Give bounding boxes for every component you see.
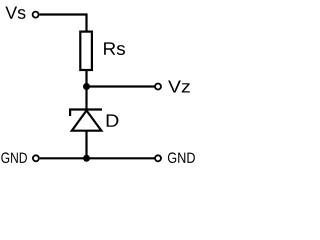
node Vz label — [168, 81, 190, 93]
zener diode D label — [107, 114, 119, 126]
node Vs terminal circle — [33, 12, 39, 18]
wire node to Vz terminal — [87, 85, 155, 87]
node Vs label — [5, 7, 25, 19]
ground terminal circle left — [33, 155, 39, 161]
wire Vs terminal to resistor top — [40, 15, 87, 32]
wire zener anode to ground rail — [85, 131, 87, 158]
resistor Rs label — [104, 42, 125, 55]
ground label right GND — [168, 152, 195, 163]
junction node at Vz — [83, 83, 90, 90]
ground rail wire — [40, 157, 155, 159]
zener diode D triangle (anode) — [72, 111, 102, 131]
junction node on ground rail — [83, 155, 90, 162]
ground label left GND — [1, 152, 27, 163]
wire resistor bottom to node Vz — [85, 70, 87, 87]
node Vz terminal circle — [155, 84, 161, 90]
zener diode D cathode bar with bent left end — [70, 110, 102, 117]
ground terminal circle right — [155, 155, 161, 161]
wire node to zener cathode — [85, 87, 87, 111]
resistor Rs — [80, 32, 92, 70]
